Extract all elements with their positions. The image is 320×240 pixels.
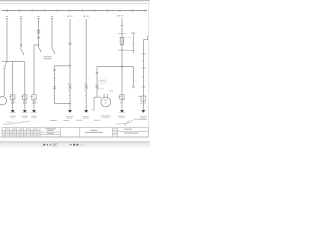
drawing number row texts [124, 129, 139, 134]
arrow termination T1 [11, 110, 15, 113]
node bus junction at feeder 1 [6, 10, 7, 11]
disconnect symbol feeder 2 [20, 16, 22, 18]
drawing frame top [0, 3, 150, 5]
label near motor leads [109, 89, 113, 92]
label under feeder 5 [66, 116, 73, 117]
tick lower column [53, 95, 54, 97]
label under feeder 7 [118, 116, 125, 117]
label text block feeder 4 [44, 56, 52, 59]
breaker X x97 [95, 85, 98, 88]
wire x133 to link [132, 45, 134, 53]
title block signatures scribble left [3, 121, 31, 125]
tick bars right column [142, 54, 146, 87]
company name text middle [45, 128, 56, 133]
transformer feeder T2 drop [24, 62, 26, 111]
label above feeder 7 [117, 15, 120, 16]
sub contact T1 [12, 101, 14, 104]
disconnect symbol feeder 1 [6, 16, 8, 18]
breaker X symbol lower column [53, 86, 56, 89]
left rail horizontal [2, 61, 25, 63]
small col texts [113, 128, 117, 135]
tick feeder 7 upper [121, 25, 124, 27]
sub contact T2 [24, 101, 26, 104]
project title text right cell [85, 130, 103, 133]
motor M2 top leads [103, 94, 105, 98]
arrow termination feeder 6 [84, 110, 88, 113]
arrow termination feeder 7 [120, 110, 124, 113]
wire x97 drop [96, 67, 98, 98]
junction feeder5 rail2 [69, 65, 71, 67]
wire feeder 3 drop [38, 19, 40, 47]
title block signature scribble right [117, 120, 134, 125]
fuse box feeder 7 [120, 38, 123, 45]
switch blade to motor 1 [5, 62, 7, 67]
tick feeder 5 [69, 94, 70, 96]
tick feeder 6 [85, 94, 86, 96]
motor M2 circle [101, 97, 111, 107]
label under T1 [10, 116, 16, 117]
drawing frame right [147, 4, 149, 137]
wire lower column x54.5 [54, 66, 56, 104]
contact marks lower column [53, 70, 56, 71]
earth leg left of motor M2 [92, 97, 94, 110]
label under T2 [22, 116, 28, 117]
wire feeder 4 drop [51, 19, 53, 49]
wire x133 upper [132, 33, 134, 43]
tick below device right column [140, 102, 146, 104]
contact mark x133 [132, 43, 134, 44]
breaker X feeder 6 [85, 84, 88, 91]
sub contact x34 [33, 101, 35, 104]
bar junction feeder 7 [118, 33, 126, 35]
switch open hook feeder 2 [21, 50, 23, 55]
rail coupler tee y65.8 [55, 65, 71, 67]
fuse box feeder 3 [37, 30, 40, 33]
label under x34 [31, 116, 37, 117]
viewer toolbar band [0, 142, 150, 148]
contact bars feeder 2 [20, 45, 22, 46]
wire tap left at y45 [34, 45, 39, 95]
breaker X feeder 5 [68, 84, 71, 91]
arrow termination right column [141, 110, 145, 113]
tick x97 [97, 88, 100, 90]
stub into motor M2 [94, 96, 101, 98]
horizontal link y50 [118, 49, 133, 51]
arrow termination x34 [32, 110, 36, 113]
wire feeder 2 drop [20, 19, 22, 50]
disconnect symbol feeder 3 [37, 16, 39, 18]
switch open hook feeder 4 [52, 49, 54, 54]
fuse mark feeder 5 [69, 43, 72, 44]
busbar main MV bus [2, 10, 148, 12]
switch open hook feeder 3 [39, 47, 41, 52]
dashed relay box x97 [99, 79, 107, 84]
end contact x133 [132, 86, 135, 89]
title block table grid [2, 128, 148, 137]
tee junction feeder 3 to pump line [38, 44, 39, 45]
label under motor M2 [101, 115, 111, 116]
arrow termination T2 [23, 110, 27, 113]
wire feeder 5 x70 [69, 19, 71, 110]
junction feeder7 rail3 [121, 66, 123, 68]
drawout breaker column x133 top bar [131, 32, 135, 34]
label under feeder 6 [83, 116, 90, 117]
wire to motor 1 [3, 69, 5, 95]
title block cell texts [3, 129, 40, 136]
toolbar glyph group page nav [43, 144, 51, 146]
toolbar glyph group zoom [70, 144, 79, 146]
label under right column [140, 116, 147, 117]
wire x34 lower [33, 100, 35, 111]
drawing frame bottom [0, 136, 148, 138]
bus section ticks [7, 10, 145, 12]
device box feeder 7 [120, 95, 124, 100]
contact bar feeder 3 [37, 36, 40, 38]
transformer feeder T1 drop [12, 62, 14, 111]
rail3 horizontal y66.5 [97, 66, 133, 68]
junction feeder5 motor line [69, 103, 71, 105]
label above feeder 5 [67, 16, 70, 17]
hook to bus right [143, 35, 147, 39]
wire right column x143.4 [142, 40, 144, 111]
small printed texts above title block [50, 119, 147, 121]
device box pump line x34 [32, 95, 36, 100]
dashed link fuse to breaker [124, 37, 132, 39]
device box right column [141, 96, 146, 101]
wire to motor horizontal [55, 103, 71, 105]
wire feeder 6 x86 [85, 19, 87, 110]
contact mark x97 [96, 72, 99, 73]
label above feeder 6 [83, 16, 86, 17]
device box T1 [11, 95, 15, 100]
motor M1 circle [0, 97, 6, 105]
corner x133 from rail3 down [132, 67, 134, 86]
device box T2 [23, 95, 27, 100]
wire feeder 7 x122 [121, 18, 123, 110]
wire feeder 1 drop [6, 19, 8, 62]
disconnect symbol feeder 4 [51, 16, 53, 18]
arrow termination feeder 5 [68, 110, 72, 113]
motor M2 inner marks [104, 99, 108, 102]
